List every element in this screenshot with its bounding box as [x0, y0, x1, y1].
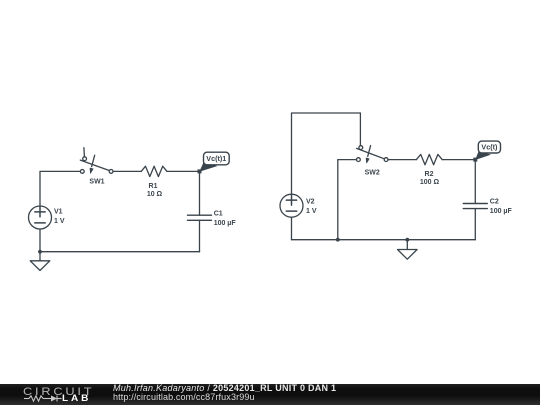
- wire: [167, 170, 200, 172]
- footer bar: [0, 384, 540, 405]
- resistor R2: [416, 154, 442, 186]
- node junction: [473, 158, 477, 162]
- node junction: [405, 238, 409, 242]
- voltage source V2: [280, 194, 317, 217]
- title text: [113, 383, 336, 393]
- svg-text:1 V: 1 V: [54, 218, 65, 225]
- svg-text:V2: V2: [306, 199, 315, 206]
- capacitor C2: [463, 199, 512, 216]
- svg-text:R1: R1: [149, 183, 158, 190]
- node junction: [336, 238, 340, 242]
- svg-text:100 µF: 100 µF: [490, 208, 513, 215]
- wire: [442, 159, 475, 161]
- wire: [40, 171, 80, 206]
- ground: [30, 252, 50, 271]
- resistor R1: [141, 166, 167, 198]
- svg-text:R2: R2: [425, 171, 434, 178]
- wire: [291, 217, 293, 240]
- wire: [40, 251, 200, 253]
- svg-text:100 Ω: 100 Ω: [420, 179, 440, 186]
- wire: [388, 159, 416, 161]
- svg-text:10 Ω: 10 Ω: [147, 191, 163, 198]
- wire: [292, 239, 476, 241]
- wire: [199, 171, 201, 215]
- wire: [474, 160, 476, 204]
- wire: [113, 170, 141, 172]
- svg-text:V1: V1: [54, 208, 63, 215]
- wire: [292, 113, 361, 194]
- voltage source V1: [29, 206, 65, 229]
- svg-text:Vc(t): Vc(t): [481, 143, 498, 152]
- svg-text:SW2: SW2: [365, 169, 380, 176]
- svg-text:Vc(t)1: Vc(t)1: [206, 154, 226, 163]
- logo wire and diode: [23, 394, 67, 404]
- node junction: [198, 169, 202, 173]
- wire: [338, 160, 357, 240]
- url text: [113, 392, 255, 402]
- probe Vc(t)1: [199, 152, 229, 172]
- switch SW2: [357, 146, 389, 177]
- logo LAB text: [62, 394, 91, 404]
- switch SW1: [80, 148, 113, 186]
- svg-text:100 µF: 100 µF: [214, 220, 237, 227]
- wire: [474, 209, 476, 240]
- wire: [39, 229, 41, 252]
- node junction: [38, 250, 42, 254]
- wire: [199, 220, 201, 251]
- CircuitLab logo: [23, 385, 103, 399]
- capacitor C1: [188, 211, 237, 228]
- svg-text:SW1: SW1: [89, 178, 104, 185]
- svg-text:C1: C1: [214, 211, 223, 218]
- svg-text:1 V: 1 V: [306, 208, 317, 215]
- svg-text:C2: C2: [490, 199, 499, 206]
- ground: [398, 240, 418, 260]
- probe Vc(t): [475, 141, 500, 160]
